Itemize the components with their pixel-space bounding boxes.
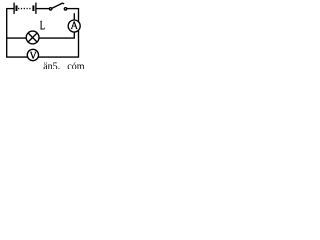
wire switch to top-right corner <box>67 8 79 10</box>
lamp L cross diagonal 1 <box>28 33 37 42</box>
voltmeter V1 circle <box>27 49 38 60</box>
lamp L cross diagonal 2 <box>28 33 37 42</box>
battery B1 long plate right <box>35 3 37 14</box>
battery dashed middle (omitted cells) <box>18 8 31 10</box>
wire voltmeter to bottom-right corner <box>38 56 79 58</box>
wire bottom from left corner to voltmeter <box>6 56 27 58</box>
ammeter letter A <box>71 21 78 28</box>
ammeter A1 bottom stub wire <box>73 32 75 38</box>
ammeter A1 top stub wire <box>73 13 75 20</box>
battery B1 long plate left <box>13 3 15 14</box>
switch S right contact circle <box>64 8 66 10</box>
svg-text:cóm: cóm <box>67 61 84 69</box>
wire lamp to ammeter stub <box>39 37 75 39</box>
battery B1 short thick plate left <box>16 5 18 11</box>
wire top-left horizontal <box>7 8 14 10</box>
voltmeter letter V <box>30 52 36 58</box>
battery B1 short thick plate right <box>32 5 34 11</box>
ammeter A1 circle <box>68 20 80 32</box>
wire middle from left vertical to lamp <box>7 37 27 39</box>
wire left vertical <box>6 8 8 57</box>
svg-text:än5.: än5. <box>43 61 60 69</box>
label L for lamp <box>40 21 44 29</box>
switch S blade <box>52 3 64 8</box>
lamp L circle <box>26 31 39 44</box>
switch S left contact circle <box>49 8 51 10</box>
wire battery to switch <box>36 8 49 10</box>
wire right vertical <box>78 8 80 57</box>
